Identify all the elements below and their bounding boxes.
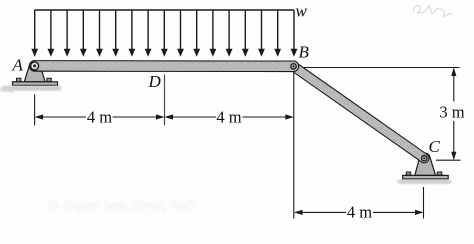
distributed load top line [35,9,294,11]
svg-text:w: w [296,2,308,21]
pin at A [31,62,39,70]
svg-text:A: A [12,56,24,75]
svg-text:4 m: 4 m [87,107,112,126]
svg-text:D: D [148,72,162,91]
svg-text:B: B [299,43,310,62]
horizontal reference line from B [301,67,460,69]
bolt right A [46,78,53,81]
ground shadow C [398,180,451,185]
pin at B [291,64,296,69]
ground shadow A [3,86,61,91]
dimension extension line below C [423,187,425,219]
support bracket A [0,61,61,93]
bolt left A [15,78,22,81]
dimension extension line at D [164,75,166,126]
base plate C [403,175,449,179]
support bracket C [398,153,451,184]
svg-text:C: C [429,137,441,156]
inclined member B-C [294,66,425,158]
bolt right C [436,172,443,175]
vertical dimension line 3 m [453,69,455,159]
short tick at C level [436,159,461,161]
dimension extension line below A [34,95,36,126]
dimension line A-D [36,116,163,118]
bolt left C [405,172,412,175]
svg-text:4 m: 4 m [216,107,241,126]
pin at C [422,156,427,161]
dimension line D-B [166,116,292,118]
beam A-B [35,60,294,72]
svg-text:3 m: 3 m [439,102,464,121]
base plate A [13,82,58,86]
ghost pencil squiggle top right [413,6,452,17]
svg-text:4 m: 4 m [347,203,372,222]
dimension extension line below B [293,72,295,219]
distributed load arrows (17) [31,10,297,57]
svg-text:their force, and length of: their force, and length of [46,197,197,213]
bottom dimension line B-C [295,211,422,213]
